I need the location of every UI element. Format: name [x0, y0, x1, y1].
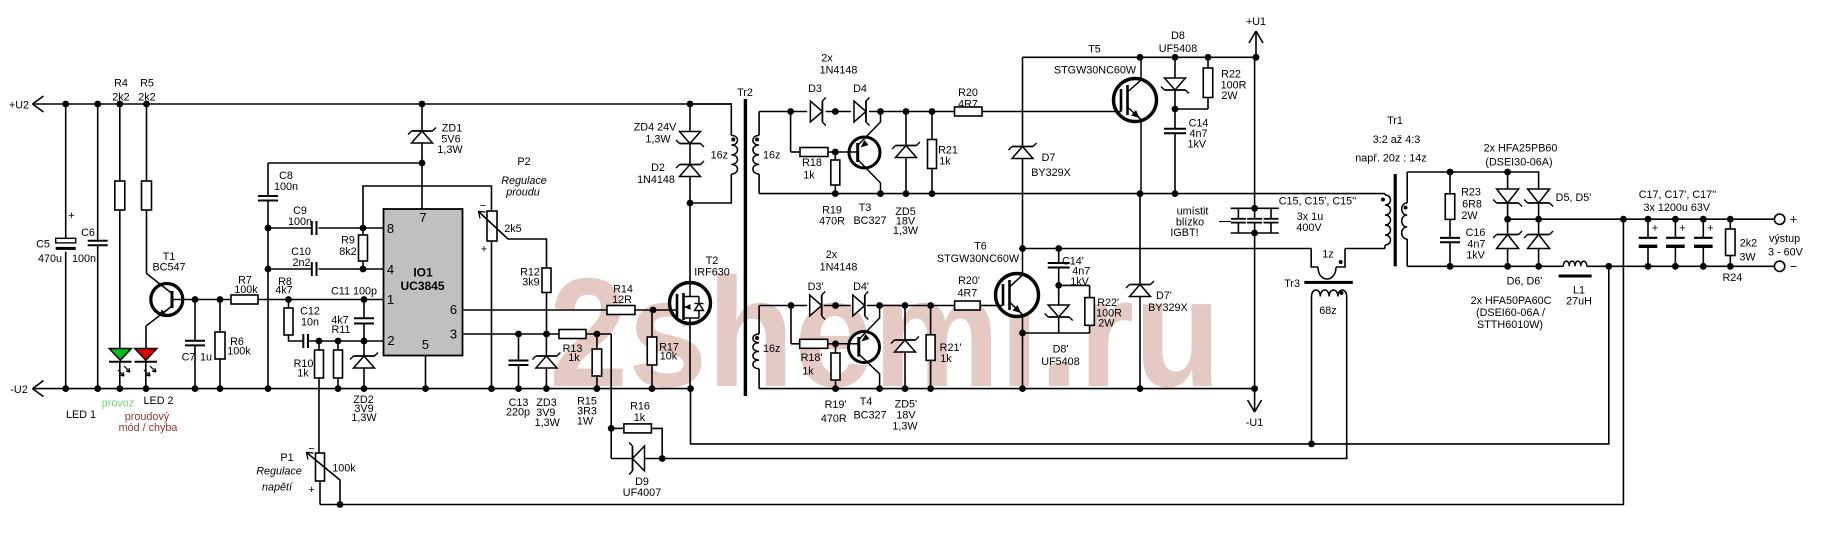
resistor R16 [611, 427, 624, 429]
svg-text:BC327: BC327 [853, 410, 886, 422]
svg-text:T5: T5 [1088, 43, 1101, 55]
svg-text:16z: 16z [711, 150, 728, 162]
svg-text:R20': R20' [958, 275, 980, 287]
LED 2 (red) [135, 349, 157, 361]
resistor R15 [596, 334, 598, 349]
T5 gate wire [982, 111, 1114, 113]
svg-text:1N4148: 1N4148 [637, 174, 675, 186]
capacitor C7 [194, 300, 196, 341]
zener ZD2 [363, 341, 365, 356]
svg-text:D4: D4 [853, 83, 867, 95]
LED 1 (green, provoz) [109, 349, 131, 361]
svg-text:C7: C7 [182, 352, 196, 364]
resistor R18 [790, 112, 792, 153]
svg-text:R22: R22 [1221, 68, 1241, 80]
lower gate drive top wire [759, 305, 807, 307]
diode D4 [854, 101, 866, 122]
freewheel diode D6 [1507, 219, 1509, 234]
svg-text:BC547: BC547 [152, 262, 185, 274]
freewheel diode D6' [1538, 219, 1540, 234]
svg-text:Tr3: Tr3 [1284, 278, 1300, 290]
svg-text:UF5408: UF5408 [1041, 356, 1079, 368]
resistor R11 [337, 341, 339, 350]
svg-text:3x 1200u 63V: 3x 1200u 63V [1643, 202, 1710, 214]
svg-text:8: 8 [387, 221, 394, 236]
inductor L1 27uH [1563, 261, 1586, 266]
wire T1 base / pin1 COMP line [172, 299, 231, 301]
svg-text:Regulace: Regulace [256, 466, 302, 478]
svg-text:5: 5 [422, 337, 429, 352]
output minus rail [1407, 265, 1563, 267]
svg-text:R23: R23 [1461, 187, 1481, 199]
snubber resistor R22 [1207, 57, 1209, 68]
svg-text:2W: 2W [1221, 90, 1238, 102]
svg-text:2shemi.ru: 2shemi.ru [549, 246, 1221, 419]
+U1 arrow [1255, 32, 1257, 57]
resistor R19' [835, 344, 837, 353]
diode D2 1N4148 [689, 144, 691, 164]
svg-text:1k: 1k [568, 352, 580, 364]
capacitor C10 [311, 262, 313, 276]
svg-text:1k: 1k [634, 412, 646, 424]
resistor R8 [288, 300, 290, 309]
zener ZD1 [421, 104, 423, 131]
svg-text:+: + [68, 210, 74, 222]
svg-text:napětí: napětí [262, 482, 293, 494]
svg-text:D5, D5': D5, D5' [1556, 192, 1592, 204]
zener ZD3 [545, 334, 547, 356]
potentiometer P2 2k5 [487, 211, 497, 241]
rectifier diode D5 [1507, 172, 1509, 189]
svg-text:100n: 100n [72, 253, 96, 265]
snubber resistor R22' [1059, 284, 1090, 286]
svg-text:2: 2 [387, 333, 394, 348]
diode D9 UF4007 [611, 458, 632, 460]
resistor R9 [362, 228, 364, 235]
svg-text:1,3W: 1,3W [351, 412, 377, 424]
diode D3 [810, 101, 822, 122]
upper gate drive bottom wire (node A) [759, 193, 1140, 195]
svg-text:3: 3 [450, 327, 457, 342]
svg-text:D3': D3' [808, 281, 824, 293]
svg-text:4: 4 [387, 262, 394, 277]
transformer Tr2 core [744, 99, 747, 396]
wire CT burden line [662, 297, 1346, 459]
lower gate drive bottom wire (-U1) [759, 388, 1255, 390]
pin3 CS line [463, 333, 560, 335]
svg-text:1z: 1z [1322, 249, 1333, 261]
svg-text:470R: 470R [819, 216, 845, 228]
svg-text:1,3W: 1,3W [437, 144, 463, 156]
upper gate drive top wire [759, 111, 807, 113]
node B to Tr1 bottom [1345, 248, 1385, 250]
svg-text:1N4148: 1N4148 [820, 65, 858, 77]
svg-text:10k: 10k [660, 351, 678, 363]
svg-text:Tr2: Tr2 [737, 87, 753, 99]
svg-text:R16: R16 [630, 401, 650, 413]
svg-text:1W: 1W [577, 416, 594, 428]
resistor R20 [955, 107, 983, 116]
svg-text:R4: R4 [114, 78, 128, 90]
P2 ground leg [491, 241, 493, 389]
wire Vref to P2 [363, 186, 492, 228]
svg-text:mód / chyba: mód / chyba [119, 422, 178, 434]
svg-text:−: − [308, 443, 314, 455]
svg-text:STTH6010W): STTH6010W) [1477, 319, 1543, 331]
ground column x268 [267, 201, 269, 389]
capacitor C13 [518, 334, 520, 361]
resistor R20' [955, 301, 981, 310]
svg-text:4R7: 4R7 [958, 99, 978, 111]
-U1 arrow [1254, 389, 1256, 411]
snubber diode D8 UF5408 [1174, 57, 1176, 77]
Tr1 primary winding [1140, 193, 1385, 195]
svg-text:IGBT!: IGBT! [1170, 227, 1198, 239]
Tr2 primary winding 16z [690, 104, 731, 135]
diode D4' [853, 295, 865, 316]
svg-text:P1: P1 [280, 452, 293, 464]
svg-text:R20: R20 [958, 87, 978, 99]
svg-text:D7: D7 [1042, 152, 1056, 164]
svg-text:3 - 60V: 3 - 60V [1768, 246, 1804, 258]
resistor R12 [542, 268, 551, 293]
resistor R6 [219, 300, 221, 333]
IC IO1 UC3845 [384, 209, 463, 356]
svg-text:3k9: 3k9 [522, 277, 539, 289]
transformer Tr1 core [1394, 174, 1397, 266]
IGBT T6 STGW30NC60W [996, 274, 1039, 317]
svg-text:R5: R5 [140, 78, 154, 90]
svg-text:Tr1: Tr1 [1387, 115, 1403, 127]
svg-text:D6, D6': D6, D6' [1507, 276, 1543, 288]
svg-text:R24: R24 [1722, 272, 1742, 284]
pin8 line with C9 [268, 227, 311, 229]
svg-text:UF4007: UF4007 [623, 487, 661, 499]
Tr3 secondary 68z [1312, 290, 1347, 297]
svg-text:2k2: 2k2 [1740, 238, 1757, 250]
svg-text:2W: 2W [1461, 210, 1478, 222]
svg-text:1k: 1k [803, 170, 815, 182]
svg-text:1kV: 1kV [1070, 276, 1089, 288]
svg-text:3W: 3W [1739, 251, 1756, 263]
svg-text:470R: 470R [821, 413, 847, 425]
resistor R21' [930, 306, 932, 335]
capacitor C6 [97, 104, 99, 241]
resistor R21 [931, 112, 933, 140]
+U2 arrow [33, 96, 44, 104]
resistor R4 [119, 104, 121, 181]
svg-text:4k7: 4k7 [275, 285, 292, 297]
svg-text:T2: T2 [706, 255, 719, 267]
svg-text:1kV: 1kV [1466, 249, 1485, 261]
svg-text:+: + [1707, 222, 1713, 234]
transistor T2 IRF630 [689, 203, 691, 283]
svg-text:−: − [1790, 260, 1797, 274]
svg-text:2x: 2x [821, 53, 833, 65]
svg-text:R9: R9 [341, 235, 355, 247]
svg-text:400V: 400V [1296, 222, 1322, 234]
snubber capacitor C16 [1449, 219, 1451, 238]
T6 gate wire [980, 305, 996, 307]
svg-text:1k: 1k [940, 353, 952, 365]
svg-text:2x HFA25PB60: 2x HFA25PB60 [1484, 143, 1558, 155]
resistor R7 [231, 295, 258, 304]
svg-text:+U1: +U1 [1246, 16, 1266, 28]
svg-text:1k: 1k [297, 368, 309, 380]
zener ZD5 [905, 112, 907, 146]
resistor R17 [651, 310, 653, 337]
T6 emitter snubber return wire [1023, 332, 1090, 334]
svg-text:provoz: provoz [102, 398, 134, 410]
svg-text:proudu: proudu [505, 187, 540, 199]
svg-text:68z: 68z [1319, 305, 1336, 317]
bulk capacitor bank C15 C15' C15'' [1254, 57, 1256, 208]
svg-text:−: − [480, 200, 486, 212]
+U1 rail [1023, 56, 1257, 58]
svg-text:16z: 16z [763, 150, 780, 162]
svg-text:R18: R18 [802, 157, 822, 169]
svg-text:6: 6 [450, 302, 457, 317]
svg-text:8k2: 8k2 [339, 246, 356, 258]
svg-text:C17, C17', C17'': C17, C17', C17'' [1639, 189, 1717, 201]
svg-text:T3: T3 [859, 202, 872, 214]
svg-text:27uH: 27uH [1566, 296, 1592, 308]
svg-text:C5: C5 [36, 239, 50, 251]
Tr1 secondary winding [1406, 172, 1408, 203]
snubber capacitor C14' [1058, 249, 1060, 264]
svg-text:6R8: 6R8 [1462, 198, 1482, 210]
svg-text:1: 1 [387, 292, 394, 307]
svg-text:IO1: IO1 [413, 266, 433, 280]
zener ZD4 24V [689, 104, 691, 131]
svg-text:+: + [481, 244, 487, 256]
wire Vcc node to C8 [268, 162, 422, 164]
-U2 arrow [33, 381, 44, 389]
pin4 line with C10 [268, 268, 311, 270]
svg-text:C16: C16 [1466, 227, 1486, 239]
transformer Tr3 core [1304, 281, 1353, 284]
snubber diode D8' UF5408 [1058, 285, 1060, 304]
svg-text:100k: 100k [332, 463, 356, 475]
wire CS node [586, 333, 611, 335]
T2 gate wire [635, 309, 670, 311]
Tr1 secondary top wire [1407, 172, 1538, 189]
clamp diode D7 BY329X [1022, 57, 1024, 146]
output terminal plus [1774, 214, 1784, 224]
pin6 OUT line [463, 309, 608, 311]
svg-text:1k: 1k [939, 156, 951, 168]
svg-text:(DSEI60-06A /: (DSEI60-06A / [1476, 307, 1545, 319]
svg-text:C11 100p: C11 100p [331, 286, 377, 298]
zener ZD5' [904, 306, 906, 340]
clamp diode D7' BY329X [1139, 194, 1141, 284]
svg-text:IRF630: IRF630 [694, 267, 729, 279]
svg-text:1kV: 1kV [1187, 139, 1206, 151]
output capacitors C17 C17' C17'' [1647, 219, 1649, 238]
transistor T4 BC327 [849, 332, 880, 363]
svg-text:1,3W: 1,3W [535, 417, 561, 429]
svg-text:+: + [1790, 213, 1797, 227]
bleeder resistor R24 [1729, 219, 1731, 229]
svg-text:T6: T6 [974, 241, 987, 253]
svg-text:ZD4 24V: ZD4 24V [634, 122, 677, 134]
Tr2 upper secondary 16z [758, 112, 760, 136]
svg-text:+: + [308, 484, 314, 496]
svg-text:D8: D8 [1171, 30, 1185, 42]
svg-text:2W: 2W [1098, 318, 1115, 330]
diode D3' [810, 295, 822, 316]
capacitor C9 [311, 221, 313, 235]
svg-text:T4: T4 [860, 396, 873, 408]
resistor R10 [318, 341, 320, 350]
transistor T1 BC547 [151, 284, 183, 316]
svg-text:D7': D7' [1156, 290, 1172, 302]
svg-text:UF5408: UF5408 [1159, 43, 1197, 55]
svg-text:LED 1: LED 1 [66, 409, 96, 421]
capacitor C5 [65, 104, 67, 238]
svg-text:2k2: 2k2 [112, 92, 129, 104]
svg-text:R11: R11 [331, 324, 350, 336]
svg-text:470u: 470u [38, 253, 62, 265]
svg-text:1,3W: 1,3W [892, 421, 918, 433]
svg-text:(DSEI30-06A): (DSEI30-06A) [1485, 157, 1552, 169]
+U2 rail [33, 103, 732, 105]
wire T2 source to output minus [691, 266, 1609, 444]
svg-text:2k2: 2k2 [138, 92, 155, 104]
IGBT T5 STGW30NC60W [1114, 79, 1157, 122]
svg-text:+U2: +U2 [9, 100, 29, 112]
svg-text:výstup: výstup [1769, 233, 1800, 245]
svg-text:2x HFA50PA60C: 2x HFA50PA60C [1471, 295, 1552, 307]
pin2 VFB line [308, 340, 384, 342]
svg-text:P2: P2 [517, 156, 530, 168]
svg-text:D4': D4' [853, 281, 869, 293]
svg-text:+: + [1652, 222, 1658, 234]
svg-text:220p: 220p [506, 407, 530, 419]
svg-text:3:2 až 4:3: 3:2 až 4:3 [1373, 134, 1420, 146]
Tr3 1z primary loop [1311, 249, 1318, 268]
transistor T3 BC327 [849, 137, 880, 168]
svg-text:LED 2: LED 2 [143, 395, 173, 407]
resistor R5 [146, 104, 148, 181]
resistor R19 [834, 152, 836, 160]
resistor R14 [607, 306, 635, 315]
svg-text:1N4148: 1N4148 [820, 262, 858, 274]
svg-text:+: + [1679, 222, 1685, 234]
svg-text:C15, C15', C15'': C15, C15', C15'' [1279, 196, 1357, 208]
wire output voltage sense [320, 504, 340, 506]
svg-text:100n: 100n [288, 216, 312, 228]
svg-text:BY329X: BY329X [1148, 302, 1188, 314]
snubber capacitor C14 [1174, 109, 1176, 129]
resistor R13 [559, 330, 586, 339]
svg-text:16z: 16z [763, 343, 780, 355]
svg-text:-U2: -U2 [10, 384, 27, 396]
svg-text:UC3845: UC3845 [400, 279, 444, 293]
snubber resistor R23 [1449, 172, 1451, 194]
svg-text:BY329X: BY329X [1031, 167, 1071, 179]
svg-text:100n: 100n [274, 181, 298, 193]
svg-text:10n: 10n [301, 317, 319, 329]
svg-text:2x: 2x [826, 249, 838, 261]
svg-text:1,3W: 1,3W [893, 225, 919, 237]
svg-text:BC327: BC327 [853, 215, 886, 227]
svg-text:4R7: 4R7 [957, 288, 977, 300]
svg-text:Regulace: Regulace [501, 175, 547, 187]
output plus rail [1508, 218, 1775, 220]
Tr2 lower secondary 16z [758, 306, 760, 335]
wire sense to R16/D9 [610, 334, 612, 459]
svg-text:100k: 100k [234, 284, 258, 296]
svg-text:D2: D2 [651, 162, 665, 174]
svg-text:D8': D8' [1053, 344, 1069, 356]
output terminal minus [1774, 261, 1784, 271]
potentiometer P1 100k [316, 453, 325, 481]
svg-text:7: 7 [419, 210, 426, 225]
svg-text:2n2: 2n2 [292, 257, 310, 269]
-U2 rail [33, 388, 691, 390]
svg-text:R19': R19' [825, 399, 847, 411]
rectifier diode D5' [1528, 189, 1550, 203]
svg-text:1k: 1k [802, 366, 814, 378]
svg-text:2k5: 2k5 [504, 223, 521, 235]
svg-text:-U1: -U1 [1246, 417, 1263, 429]
node B wire [1023, 248, 1312, 250]
svg-text:R18': R18' [801, 352, 823, 364]
resistor R18' [790, 306, 792, 344]
capacitor C8 [267, 163, 269, 196]
svg-text:STGW30NC60W: STGW30NC60W [937, 253, 1020, 265]
svg-text:12R: 12R [612, 294, 632, 306]
pin5 ground lead [425, 356, 427, 389]
capacitor C11 [363, 300, 365, 319]
svg-text:D3: D3 [808, 83, 822, 95]
svg-text:1,3W: 1,3W [645, 134, 671, 146]
svg-text:C6: C6 [81, 227, 95, 239]
svg-text:např. 20z : 14z: např. 20z : 14z [1355, 153, 1426, 165]
capacitor C12 [302, 334, 304, 348]
svg-text:100k: 100k [227, 346, 251, 358]
svg-text:1u: 1u [200, 352, 212, 364]
svg-text:STGW30NC60W: STGW30NC60W [1054, 64, 1137, 76]
